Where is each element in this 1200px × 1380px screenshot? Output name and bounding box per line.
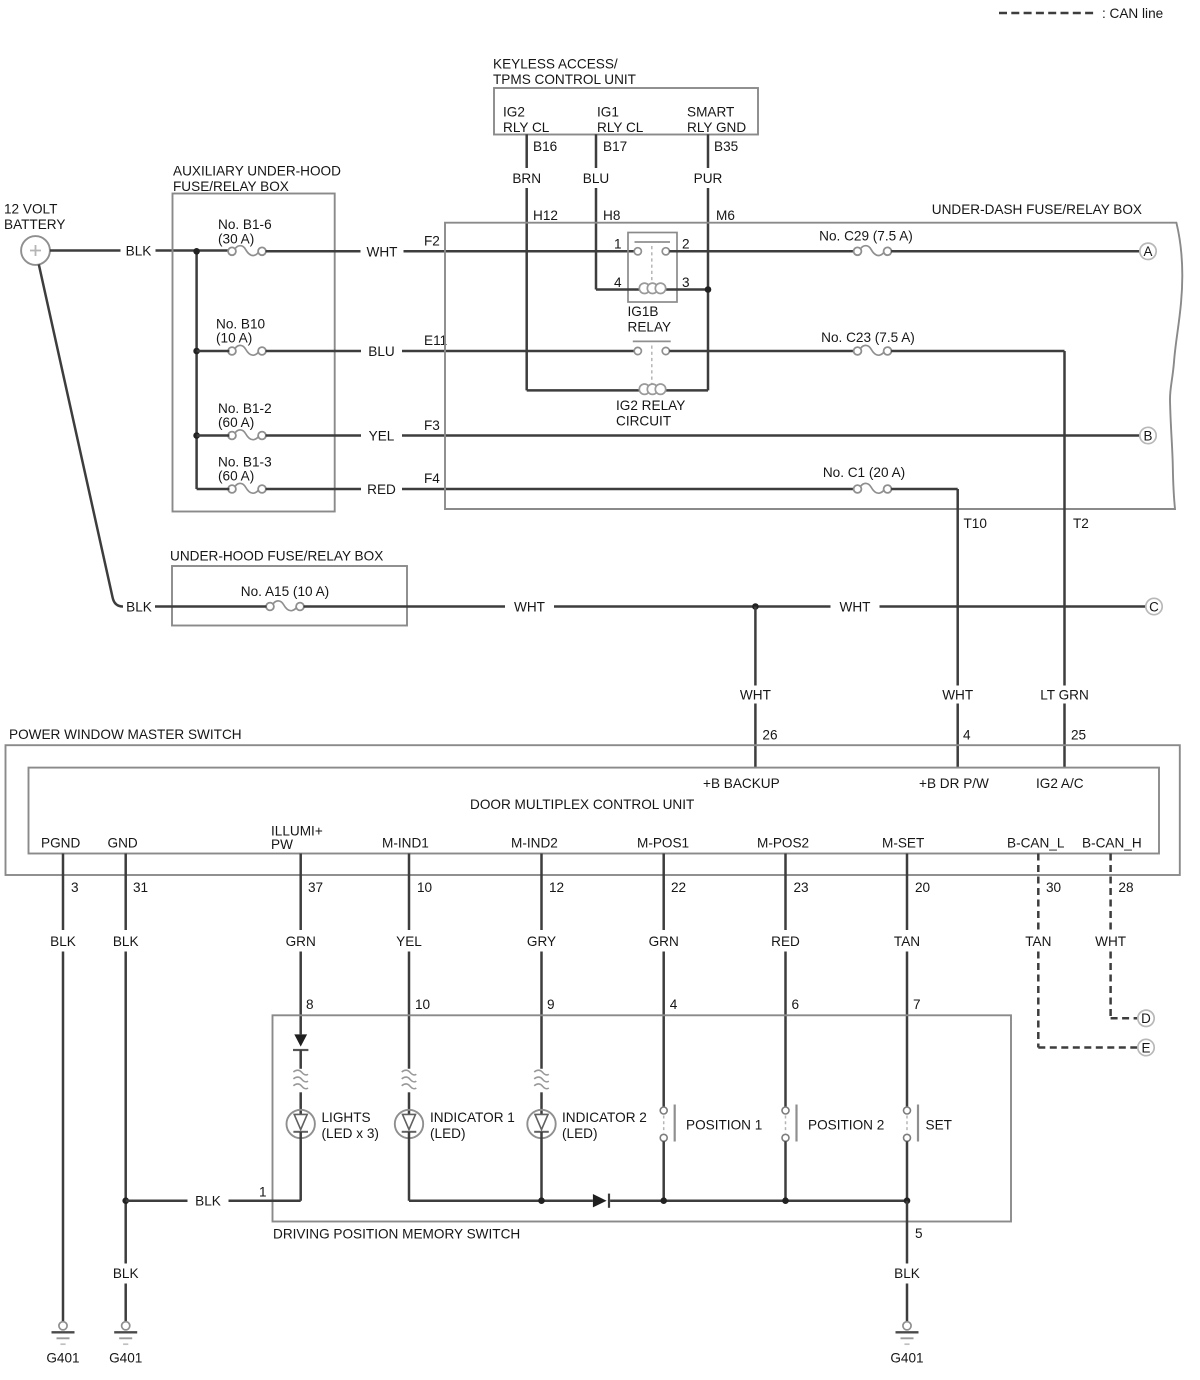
svg-text:POWER WINDOW MASTER SWITCH: POWER WINDOW MASTER SWITCH [9, 727, 242, 742]
wire fuse C23 to T2 [891, 350, 1064, 353]
wire fuse C29 to connector A [891, 250, 1140, 253]
wire fuse C1 to T10 [891, 488, 958, 491]
svg-text:T2: T2 [1073, 516, 1089, 531]
switch SET [904, 1107, 911, 1114]
svg-text:26: 26 [762, 728, 777, 743]
wire +B DR P/W (WHT) pin 4 from T10 [956, 509, 959, 686]
svg-text:B17: B17 [603, 139, 627, 154]
legend: CAN line dashed sample [999, 12, 1096, 15]
svg-text:8: 8 [306, 997, 314, 1012]
svg-text:25: 25 [1071, 728, 1086, 743]
svg-text:F4: F4 [424, 471, 440, 486]
svg-text:PW: PW [271, 837, 293, 852]
svg-text:T10: T10 [964, 516, 988, 531]
driving position memory switch box [273, 1015, 1012, 1221]
svg-text:B: B [1144, 428, 1153, 443]
svg-text:No. C23 (7.5 A): No. C23 (7.5 A) [821, 330, 915, 345]
svg-text:F2: F2 [424, 234, 440, 249]
svg-text:4: 4 [670, 997, 678, 1012]
node: pin3 junction on M6 wire [705, 286, 712, 293]
svg-text:+B DR P/W: +B DR P/W [919, 776, 989, 791]
svg-text:IG2: IG2 [503, 105, 525, 120]
switch POSITION 2 [782, 1107, 789, 1114]
wire B-CAN_H pin 28 (WHT) CAN line to connector D [1109, 854, 1112, 931]
svg-text:GRN: GRN [286, 934, 316, 949]
svg-text:G401: G401 [46, 1351, 79, 1366]
wire pin B16 IG2 RLY CL (BRN) to H12 [525, 134, 528, 168]
svg-text:DOOR MULTIPLEX CONTROL UNIT: DOOR MULTIPLEX CONTROL UNIT [470, 797, 694, 812]
auxiliary under-hood fuse/relay box [173, 194, 335, 512]
svg-text:LT GRN: LT GRN [1040, 688, 1089, 703]
svg-text:KEYLESS ACCESS/: KEYLESS ACCESS/ [493, 57, 618, 72]
svg-text:IG2 A/C: IG2 A/C [1036, 776, 1084, 791]
svg-text:BRN: BRN [512, 171, 541, 186]
wire fuse B10 to E11 (BLU) [197, 350, 230, 353]
LED LIGHTS (LED x 3) [287, 1110, 315, 1138]
svg-text:CIRCUIT: CIRCUIT [616, 414, 671, 429]
svg-text:(30 A): (30 A) [218, 231, 254, 246]
svg-text:(LED x 3): (LED x 3) [322, 1126, 379, 1141]
wire LED INDICATOR 1 to bus [408, 1132, 411, 1201]
svg-text:WHT: WHT [740, 688, 771, 703]
svg-text:RLY CL: RLY CL [597, 120, 644, 135]
bus wire inside auxiliary box [195, 251, 198, 489]
keyless access / TPMS control unit box [494, 88, 758, 135]
fuse No. B1-2 (60 A) [228, 432, 236, 440]
diode (LIGHTS branch) [294, 1034, 307, 1046]
connector E [1138, 1039, 1154, 1055]
svg-text:BLK: BLK [894, 1266, 920, 1281]
svg-text:4: 4 [963, 728, 971, 743]
node: junction POSITION 1 / bus [660, 1197, 667, 1204]
svg-text:POSITION 2: POSITION 2 [808, 1118, 884, 1133]
fuse No. B1-3 (60 A) [228, 485, 236, 493]
resistor (LIGHTS branch) [293, 1070, 308, 1075]
wire POSITION 1 to bus [662, 1141, 665, 1200]
ground G401 (PGND) [59, 1322, 67, 1330]
svg-text:2: 2 [682, 237, 690, 252]
wire LED INDICATOR 2 to bus [540, 1132, 543, 1201]
svg-text:: CAN line: : CAN line [1102, 6, 1163, 21]
svg-text:5: 5 [915, 1226, 923, 1241]
node: junction INDICATOR 2 / bus [538, 1197, 545, 1204]
svg-text:YEL: YEL [369, 429, 395, 444]
svg-text:No. B1-3: No. B1-3 [218, 454, 272, 469]
wire IG2 relay contact to fuse C23 [669, 350, 854, 353]
svg-text:PUR: PUR [694, 171, 723, 186]
svg-text:1: 1 [614, 237, 622, 252]
svg-text:RLY CL: RLY CL [503, 120, 550, 135]
svg-text:No. C1 (20 A): No. C1 (20 A) [823, 465, 905, 480]
wire IG2 A/C (LT GRN) pin 25 from T2 [1063, 509, 1066, 686]
svg-text:WHT: WHT [367, 244, 398, 259]
fuse No. B10 (10 A) [228, 347, 236, 355]
connector C [1146, 598, 1162, 614]
wire LED LIGHTS to ground bus [299, 1132, 302, 1201]
svg-text:DRIVING POSITION MEMORY SWITCH: DRIVING POSITION MEMORY SWITCH [273, 1227, 520, 1242]
svg-text:B-CAN_H: B-CAN_H [1082, 836, 1142, 851]
svg-text:BLU: BLU [583, 171, 609, 186]
svg-text:GRY: GRY [527, 934, 556, 949]
wire M-POS1 pin 22 (GRN) to memory switch pin 4 [662, 854, 665, 931]
svg-text:28: 28 [1118, 880, 1133, 895]
coil of IG2 relay [639, 384, 649, 394]
svg-text:IG1: IG1 [597, 105, 619, 120]
svg-text:INDICATOR 1: INDICATOR 1 [430, 1110, 515, 1125]
wire M-IND2 pin 12 (GRY) to memory switch pin 9 [540, 854, 543, 931]
wire GND pin 31 (BLK) to ground [124, 854, 127, 931]
node: junction +B BACKUP tap [752, 603, 759, 610]
svg-text:7: 7 [913, 997, 921, 1012]
svg-text:BLU: BLU [368, 344, 394, 359]
svg-text:4: 4 [614, 275, 622, 290]
svg-text:TPMS CONTROL UNIT: TPMS CONTROL UNIT [493, 72, 636, 87]
svg-text:GND: GND [108, 836, 138, 851]
node: junction fuse B10 [193, 348, 200, 355]
svg-text:UNDER-DASH FUSE/RELAY BOX: UNDER-DASH FUSE/RELAY BOX [932, 202, 1142, 217]
svg-text:B16: B16 [533, 139, 557, 154]
node: junction battery feed / fuse B1-6 [193, 248, 200, 255]
svg-text:TAN: TAN [1025, 934, 1051, 949]
wire bus diode to SET branch [610, 1199, 907, 1202]
svg-text:GRN: GRN [649, 934, 679, 949]
svg-text:TAN: TAN [894, 934, 920, 949]
svg-text:C: C [1149, 599, 1159, 614]
svg-text:+B BACKUP: +B BACKUP [703, 776, 780, 791]
svg-text:37: 37 [308, 880, 323, 895]
svg-text:F3: F3 [424, 418, 440, 433]
svg-text:3: 3 [682, 275, 690, 290]
wire IG1B coil pins 4-3 [596, 288, 708, 291]
battery 12 VOLT BATTERY [21, 236, 50, 265]
svg-text:M-SET: M-SET [882, 836, 924, 851]
svg-text:H8: H8 [603, 208, 620, 223]
svg-text:No. B1-2: No. B1-2 [218, 401, 272, 416]
svg-text:31: 31 [133, 880, 148, 895]
svg-text:SMART: SMART [687, 105, 734, 120]
svg-text:RED: RED [771, 934, 800, 949]
fuse No. A15 (10 A) [266, 603, 274, 611]
svg-text:BLK: BLK [126, 244, 152, 259]
svg-text:No. B1-6: No. B1-6 [218, 217, 272, 232]
svg-text:1: 1 [259, 1185, 267, 1200]
svg-text:M-POS2: M-POS2 [757, 836, 809, 851]
svg-text:B-CAN_L: B-CAN_L [1007, 836, 1065, 851]
node: junction SET / bus [904, 1197, 911, 1204]
svg-text:POSITION 1: POSITION 1 [686, 1118, 762, 1133]
svg-text:No. B10: No. B10 [216, 316, 266, 331]
wire M-POS2 pin 23 (RED) to memory switch pin 6 [784, 854, 787, 931]
svg-text:UNDER-HOOD FUSE/RELAY BOX: UNDER-HOOD FUSE/RELAY BOX [170, 549, 383, 564]
svg-text:M6: M6 [716, 208, 735, 223]
svg-text:BLK: BLK [50, 934, 76, 949]
wire IG2 relay coil (BRN side to M6) [527, 389, 708, 392]
relay IG2 RELAY CIRCUIT [633, 340, 671, 342]
under-dash fuse/relay box [445, 223, 1182, 509]
fuse No. C23 (7.5 A) [854, 347, 862, 355]
relay IG1B RELAY [628, 233, 677, 303]
svg-text:22: 22 [671, 880, 686, 895]
power window master switch box [6, 745, 1180, 875]
svg-text:(60 A): (60 A) [218, 415, 254, 430]
wire M-IND1 pin 10 (YEL) to memory switch pin 10 [408, 854, 411, 931]
ground bus inside memory switch [409, 1199, 593, 1202]
svg-text:D: D [1141, 1011, 1151, 1026]
svg-text:IG2 RELAY: IG2 RELAY [616, 398, 685, 413]
door multiplex control unit box [29, 768, 1160, 854]
wire M-SET pin 20 (TAN) to memory switch pin 7 [906, 854, 909, 931]
svg-text:20: 20 [915, 880, 931, 895]
svg-text:(10 A): (10 A) [216, 331, 252, 346]
wire memory switch pin 5 (BLK) to ground [906, 1201, 909, 1264]
wire pin B17 IG1 RLY CL (BLU) to H8 [595, 134, 598, 168]
node: junction POSITION 2 / bus [782, 1197, 789, 1204]
wire fuse B1-3 to F4 (RED) [197, 488, 230, 491]
svg-text:G401: G401 [890, 1351, 923, 1366]
resistor (INDICATOR 1) [402, 1070, 417, 1075]
coil of IG1B relay [639, 283, 649, 293]
diode on ground bus [593, 1194, 607, 1207]
svg-text:E11: E11 [424, 333, 447, 348]
svg-text:WHT: WHT [840, 600, 871, 615]
svg-text:M-POS1: M-POS1 [637, 836, 689, 851]
wire resistor to LED LIGHTS [299, 1050, 302, 1069]
switch POSITION 1 [660, 1107, 667, 1114]
wire B-CAN_L pin 30 (TAN) CAN line to connector E [1037, 854, 1040, 931]
svg-text:B35: B35 [714, 139, 738, 154]
svg-text:BLK: BLK [113, 934, 139, 949]
connector B [1140, 427, 1156, 443]
svg-text:BLK: BLK [126, 600, 152, 615]
wire memory switch pin 1 (BLK) [126, 1199, 188, 1202]
svg-text:30: 30 [1046, 880, 1062, 895]
ground G401 (GND) [122, 1322, 130, 1330]
svg-text:IG1B: IG1B [628, 304, 659, 319]
LED INDICATOR 1 [408, 1092, 411, 1114]
svg-text:YEL: YEL [396, 934, 422, 949]
svg-text:No. C29 (7.5 A): No. C29 (7.5 A) [819, 229, 913, 244]
svg-text:LIGHTS: LIGHTS [322, 1110, 371, 1125]
wire POSITION 2 to bus [784, 1141, 787, 1200]
svg-text:12: 12 [549, 880, 564, 895]
svg-text:RED: RED [367, 482, 396, 497]
wire battery to under-hood fuse box (BLK, diagonal) [39, 264, 123, 606]
svg-text:H12: H12 [533, 208, 558, 223]
svg-text:RELAY: RELAY [628, 320, 672, 335]
svg-text:INDICATOR 2: INDICATOR 2 [562, 1110, 647, 1125]
svg-text:SET: SET [926, 1118, 952, 1133]
svg-text:WHT: WHT [942, 688, 973, 703]
wire ILLUMI+PW pin 37 (GRN) to memory switch pin 8 [299, 854, 302, 931]
under-hood fuse/relay box [172, 566, 407, 626]
svg-text:G401: G401 [109, 1351, 142, 1366]
node: junction GND / memory switch pin 1 [122, 1197, 129, 1204]
node: junction fuse B1-2 [193, 432, 200, 439]
svg-text:(LED): (LED) [430, 1126, 466, 1141]
svg-text:FUSE/RELAY BOX: FUSE/RELAY BOX [173, 179, 289, 194]
wire fuse B1-6 to F2 (WHT) [266, 250, 361, 253]
svg-text:23: 23 [794, 880, 809, 895]
connector D [1138, 1010, 1154, 1026]
svg-text:9: 9 [547, 997, 555, 1012]
fuse No. C29 (7.5 A) [854, 247, 862, 255]
connector A [1140, 243, 1156, 259]
wire +B BACKUP (WHT) pin 26 [754, 607, 757, 686]
svg-text:No. A15 (10 A): No. A15 (10 A) [241, 584, 329, 599]
fuse No. B1-6 (30 A) [228, 247, 236, 255]
svg-text:M-IND1: M-IND1 [382, 836, 429, 851]
svg-text:(LED): (LED) [562, 1126, 598, 1141]
svg-text:BATTERY: BATTERY [4, 217, 65, 232]
resistor (INDICATOR 2) [534, 1070, 549, 1075]
svg-text:BLK: BLK [195, 1194, 221, 1209]
wire PGND pin 3 (BLK) to ground [62, 854, 65, 931]
svg-text:10: 10 [417, 880, 433, 895]
wire battery to auxiliary fuse box (BLK) [50, 249, 121, 252]
svg-text:M-IND2: M-IND2 [511, 836, 558, 851]
wire SET to bus [906, 1141, 909, 1200]
svg-text:BLK: BLK [113, 1266, 139, 1281]
svg-text:(60 A): (60 A) [218, 469, 254, 484]
svg-text:E: E [1142, 1040, 1151, 1055]
svg-text:10: 10 [415, 997, 431, 1012]
svg-text:A: A [1144, 244, 1153, 259]
svg-text:AUXILIARY UNDER-HOOD: AUXILIARY UNDER-HOOD [173, 164, 341, 179]
wire under-hood fuse to connector C (WHT) [155, 605, 266, 608]
svg-text:WHT: WHT [514, 600, 545, 615]
svg-text:PGND: PGND [41, 836, 80, 851]
wire pin B35 SMART RLY GND (PUR) to M6 [707, 134, 710, 168]
wire IG1B pin 2 to fuse C29 [669, 250, 854, 253]
svg-text:6: 6 [792, 997, 800, 1012]
fuse No. C1 (20 A) [854, 485, 862, 493]
svg-text:RLY GND: RLY GND [687, 120, 746, 135]
wire fuse B1-2 to F3 (YEL) and connector B [197, 434, 230, 437]
ground G401 (memory switch) [903, 1322, 911, 1330]
svg-text:WHT: WHT [1095, 934, 1126, 949]
svg-text:3: 3 [71, 880, 79, 895]
LED INDICATOR 2 [540, 1092, 543, 1114]
svg-text:12 VOLT: 12 VOLT [4, 202, 57, 217]
